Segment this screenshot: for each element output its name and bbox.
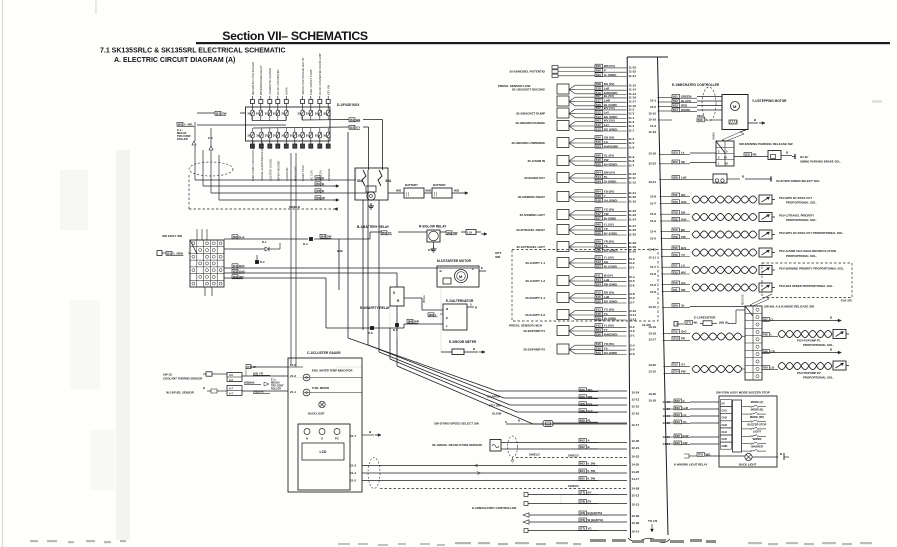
- svg-text:PSV-E/HI SPEED PROPORTIONAL SO: PSV-E/HI SPEED PROPORTIONAL SOL.: [779, 284, 834, 288]
- svg-text:(78): (78): [316, 189, 321, 193]
- svg-text:14-20: 14-20: [632, 470, 640, 474]
- svg-text:15-2: 15-2: [650, 105, 656, 109]
- svg-text:15-8: 15-8: [650, 195, 656, 199]
- svg-text:30-11/OPT 1-1: 30-11/OPT 1-1: [525, 261, 545, 265]
- svg-text:(63) YR: (63) YR: [253, 372, 264, 376]
- svg-text:B: B: [518, 419, 520, 423]
- svg-text:30-16/MODEL POTENTIO: 30-16/MODEL POTENTIO: [510, 70, 546, 74]
- svg-text:PSV-P2/PUMP P2: PSV-P2/PUMP P2: [797, 371, 821, 375]
- svg-text:C-1: C-1: [208, 136, 213, 140]
- svg-text:GLOW: GLOW: [492, 412, 501, 416]
- svg-text:SW-5/TWO-SPEED SELECT SW: SW-5/TWO-SPEED SELECT SW: [434, 422, 479, 426]
- svg-text:A-6: A-6: [229, 379, 234, 382]
- svg-text:MAIN LIGHT: MAIN LIGHT: [293, 166, 297, 181]
- svg-text:WASHER: WASHER: [751, 445, 763, 449]
- svg-text:15-15: 15-15: [648, 112, 656, 116]
- svg-text:(75): (75): [698, 453, 703, 457]
- svg-text:Section VII– SCHEMATICS: Section VII– SCHEMATICS: [222, 29, 368, 43]
- svg-text:(52): (52): [350, 118, 355, 122]
- svg-text:B: B: [588, 445, 590, 449]
- svg-text:30-4/BOOM LOWERING: 30-4/BOOM LOWERING: [511, 141, 545, 145]
- svg-text:W: W: [322, 196, 325, 200]
- svg-text:PSV-D/P1 BY-PASS CUT PROPORTIO: PSV-D/P1 BY-PASS CUT PROPORTIONAL SOL.: [779, 231, 844, 235]
- svg-text:13-15: 13-15: [648, 370, 656, 374]
- svg-text:30-23/PUMP P2: 30-23/PUMP P2: [523, 348, 545, 352]
- svg-text:30-3/BOOM RAISING: 30-3/BOOM RAISING: [515, 121, 545, 125]
- svg-text:BUZZER STOP: BUZZER STOP: [748, 422, 767, 426]
- svg-text:5B: 5B: [681, 160, 685, 164]
- svg-text:1- 2RL: 1- 2RL: [184, 123, 193, 127]
- svg-text:G+L: G+L: [239, 235, 245, 239]
- svg-text:15-22: 15-22: [648, 162, 656, 166]
- svg-text:WIPER/WASHER RELAY: WIPER/WASHER RELAY: [259, 65, 263, 95]
- svg-text:A-7: A-7: [229, 393, 234, 396]
- svg-text:| |: | |: [406, 192, 409, 197]
- svg-text:5Y: 5Y: [388, 231, 392, 235]
- svg-text:15-12: 15-12: [632, 494, 640, 498]
- svg-text:PROPORTIONAL SOL.: PROPORTIONAL SOL.: [786, 218, 817, 222]
- svg-text:ION: ION: [495, 255, 500, 259]
- svg-text:FUEL PUMP CAB ROOM LIGHTS: FUEL PUMP CAB ROOM LIGHTS: [251, 141, 255, 181]
- svg-text:A-6: A-6: [229, 374, 234, 377]
- svg-text:(63)GrB: (63)GrB: [253, 390, 264, 394]
- svg-text:14-25: 14-25: [632, 463, 640, 467]
- svg-text:(76): (76): [316, 196, 321, 200]
- svg-text:(77): (77): [580, 527, 585, 531]
- svg-text:S: S: [321, 437, 323, 441]
- svg-text:RELEASE: RELEASE: [742, 294, 745, 305]
- svg-text:10-20: 10-20: [648, 392, 656, 396]
- svg-text:EA1-370: EA1-370: [841, 299, 852, 303]
- svg-text:30-22/PUMP P1: 30-22/PUMP P1: [523, 329, 545, 333]
- svg-text:80A: 80A: [357, 179, 364, 183]
- svg-text:15-13: 15-13: [632, 503, 640, 507]
- svg-text:WY: WY: [239, 275, 244, 279]
- svg-text:13-15: 13-15: [648, 305, 656, 309]
- svg-text:GY: GY: [356, 126, 360, 130]
- svg-text:PW: PW: [681, 370, 686, 374]
- svg-text:SHIELD: SHIELD: [529, 453, 540, 457]
- svg-text:15-1: 15-1: [650, 99, 656, 103]
- svg-text:21-3: 21-3: [350, 464, 356, 468]
- svg-text:E-3/HOUR METER: E-3/HOUR METER: [449, 340, 477, 344]
- svg-text:SHIELD: SHIELD: [568, 484, 579, 488]
- svg-text:500: 500: [698, 118, 703, 122]
- svg-text:DC-DC CONVERTER ROOM LAMP: DC-DC CONVERTER ROOM LAMP: [318, 53, 322, 95]
- svg-text:15-14: 15-14: [632, 530, 640, 534]
- svg-text:(22): (22): [745, 153, 750, 157]
- svg-text:1-2A: 1-2A: [467, 232, 472, 235]
- svg-text:PB: PB: [753, 153, 757, 157]
- svg-text:15-18: 15-18: [648, 399, 656, 403]
- svg-text:30-9/SWING RIGHT: 30-9/SWING RIGHT: [518, 195, 545, 199]
- svg-text:Le: Le: [681, 151, 685, 155]
- svg-text:30-15/FUEL SENSOR: 30-15/FUEL SENSOR: [166, 391, 194, 395]
- svg-text:S: S: [393, 291, 395, 295]
- svg-text:80A: 80A: [386, 179, 393, 183]
- svg-text:L: L: [435, 313, 437, 317]
- svg-text:15-9: 15-9: [650, 219, 656, 223]
- svg-text:BY: BY: [588, 491, 592, 495]
- svg-text:ENG. WATER TEMP INDICATOR: ENG. WATER TEMP INDICATOR: [312, 369, 352, 373]
- svg-text:21-5: 21-5: [350, 479, 356, 483]
- svg-text:(63)BrB: (63)BrB: [244, 381, 254, 385]
- svg-text:13-17: 13-17: [648, 338, 656, 342]
- svg-text:BATTERY: BATTERY: [405, 183, 418, 187]
- svg-text:D-6: D-6: [368, 331, 373, 335]
- svg-text:11-19: 11-19: [629, 200, 637, 204]
- svg-text:A-7: A-7: [229, 388, 234, 391]
- svg-text:11-24: 11-24: [629, 218, 637, 222]
- svg-text:D-4: D-4: [428, 248, 433, 252]
- svg-text:PRESS. SENSOR HIGH: PRESS. SENSOR HIGH: [509, 324, 542, 328]
- svg-text:CH1: CH1: [722, 409, 728, 413]
- svg-text:(58): (58): [673, 176, 678, 180]
- svg-text:(56): (56): [447, 231, 452, 235]
- svg-text:(50): (50): [178, 123, 183, 127]
- svg-text:E-1/MECHATRO CONTROLLER: E-1/MECHATRO CONTROLLER: [672, 83, 720, 87]
- svg-text:K-6/WORK LIGHT RELAY: K-6/WORK LIGHT RELAY: [674, 463, 707, 467]
- svg-text:(76): (76): [580, 511, 585, 515]
- svg-text:RESERVE: RESERVE: [327, 168, 331, 181]
- svg-text:2b: 2b: [681, 304, 685, 308]
- svg-text:13-18: 13-18: [648, 332, 656, 336]
- svg-text:769: 769: [763, 366, 768, 370]
- svg-text:(76): (76): [580, 518, 585, 522]
- svg-text:7.1 SK135SRLC & SK135SRL ELECT: 7.1 SK135SRLC & SK135SRL ELECTRICAL SCHE…: [100, 48, 286, 55]
- svg-text:CIGARETTE LIGHTER: CIGARETTE LIGHTER: [268, 68, 272, 95]
- svg-text:TO 1/9: TO 1/9: [648, 519, 657, 523]
- svg-text:| |: | |: [434, 192, 437, 197]
- svg-text:60B: 60B: [396, 189, 401, 193]
- svg-text:15-6: 15-6: [650, 212, 656, 216]
- svg-text:(51): (51): [167, 252, 172, 256]
- svg-text:LeB: LeB: [681, 176, 686, 180]
- svg-text:D-1/FUSE BOX: D-1/FUSE BOX: [337, 103, 360, 107]
- svg-text:PSV-P1/PUMP P1: PSV-P1/PUMP P1: [797, 339, 821, 343]
- svg-text:D-2: D-2: [260, 260, 265, 264]
- svg-text:CH5: CH5: [722, 437, 728, 441]
- svg-text:(78): (78): [580, 500, 585, 504]
- svg-text:11-12: 11-12: [629, 181, 637, 185]
- svg-text:A. ELECTRIC CIRCUIT DIAGRAM (A: A. ELECTRIC CIRCUIT DIAGRAM (A): [114, 57, 235, 64]
- svg-text:(02): (02): [233, 270, 238, 274]
- svg-text:PROPORTIONAL SOL.: PROPORTIONAL SOL.: [803, 343, 834, 347]
- svg-text:L: L: [771, 333, 773, 337]
- svg-text:21-1: 21-1: [290, 390, 296, 394]
- svg-text:15-8: 15-8: [650, 290, 656, 294]
- svg-text:13-6: 13-6: [629, 284, 635, 288]
- svg-text:PROPORTIONAL SOL.: PROPORTIONAL SOL.: [786, 254, 817, 258]
- svg-text:13-18: 13-18: [648, 152, 656, 156]
- svg-text:11-6: 11-6: [629, 146, 635, 150]
- svg-text:(55): (55): [382, 231, 387, 235]
- svg-text:RADIO STOP: RADIO STOP: [301, 165, 305, 181]
- svg-text:21-2: 21-2: [290, 374, 296, 378]
- svg-text:(53): (53): [350, 126, 355, 130]
- svg-text:13-20: 13-20: [648, 363, 656, 367]
- svg-text:14-17: 14-17: [632, 477, 640, 481]
- svg-text:5V: 5V: [722, 402, 725, 406]
- svg-text:21-6: 21-6: [290, 363, 296, 367]
- svg-text:15-8: 15-8: [650, 272, 656, 276]
- svg-text:COOLANT THERMO SENSOR: COOLANT THERMO SENSOR: [163, 377, 202, 381]
- svg-text:PROPORTIONAL SOL.: PROPORTIONAL SOL.: [786, 201, 817, 205]
- svg-text:PSV-C/TRAVEL PRIORITY: PSV-C/TRAVEL PRIORITY: [779, 214, 814, 218]
- svg-text:KEY SW: KEY SW: [327, 84, 331, 95]
- svg-text:R-4/SAFETY RELAY: R-4/SAFETY RELAY: [360, 306, 391, 310]
- svg-text:E-1/MECHATRO CONTROLLER: E-1/MECHATRO CONTROLLER: [472, 506, 517, 510]
- svg-text:PC: PC: [335, 437, 339, 441]
- svg-text:(80)GL: (80)GL: [422, 294, 426, 303]
- svg-text:CH3: CH3: [722, 423, 728, 427]
- svg-text:15-29: 15-29: [632, 521, 640, 525]
- svg-text:15-7: 15-7: [650, 265, 656, 269]
- svg-text:30-5/SWING LEFT: 30-5/SWING LEFT: [520, 213, 546, 217]
- svg-text:(754: (754: [673, 370, 679, 374]
- svg-text:11-25: 11-25: [629, 233, 637, 237]
- svg-text:(86): (86): [429, 313, 434, 317]
- svg-text:E-11/RESISTOR: E-11/RESISTOR: [694, 316, 716, 320]
- svg-text:WR: WR: [414, 320, 420, 324]
- svg-text:WL: WL: [694, 321, 699, 325]
- svg-text:(22): (22): [673, 151, 678, 155]
- svg-text:602: 602: [580, 438, 585, 442]
- svg-text:SHIELD: SHIELD: [568, 454, 579, 458]
- svg-text:MECHATRO CONTROLLER: MECHATRO CONTROLLER: [251, 62, 255, 95]
- svg-text:15-24: 15-24: [632, 391, 640, 395]
- svg-text:D-1: D-1: [262, 240, 267, 244]
- svg-text:B (EARTH): B (EARTH): [588, 511, 603, 515]
- svg-text:D-3: D-3: [303, 242, 308, 246]
- svg-text:Y-1/STEPPING MOTOR: Y-1/STEPPING MOTOR: [752, 99, 787, 103]
- svg-text:B0B: B0B: [337, 249, 343, 253]
- svg-text:15-4: 15-4: [650, 230, 656, 234]
- svg-text:(60) 2b: (60) 2b: [719, 321, 729, 325]
- svg-text:608: 608: [580, 418, 585, 422]
- svg-text:753: 753: [673, 363, 678, 367]
- svg-text:L: L: [446, 324, 448, 328]
- svg-text:FUEL METER: FUEL METER: [312, 386, 329, 390]
- svg-text:PL: PL: [588, 418, 592, 422]
- svg-text:SWING CONTROLLER AUX SP: SWING CONTROLLER AUX SP: [301, 57, 305, 95]
- svg-text:TRAVEL ALARM BEAM FLASHER: TRAVEL ALARM BEAM FLASHER: [260, 141, 264, 181]
- svg-text:30-13/ENG. REVOLUTION SENSOR: 30-13/ENG. REVOLUTION SENSOR: [432, 443, 483, 447]
- svg-text:A/C CON: A/C CON: [309, 170, 313, 181]
- svg-text:12-17: 12-17: [632, 423, 640, 427]
- svg-text:(09): (09): [233, 275, 238, 279]
- svg-text:768: 768: [763, 333, 768, 337]
- svg-text:(78): (78): [316, 176, 321, 180]
- svg-text:(752: (752: [673, 337, 679, 341]
- svg-text:60B: 60B: [454, 189, 459, 193]
- svg-text:767: 767: [763, 318, 768, 322]
- svg-text:CH4: CH4: [722, 430, 728, 434]
- svg-text:13-1: 13-1: [629, 266, 635, 270]
- svg-text:11-30: 11-30: [629, 250, 637, 254]
- svg-text:10-29: 10-29: [632, 514, 640, 518]
- svg-text:13-21: 13-21: [648, 180, 656, 184]
- svg-text:CH2: CH2: [722, 416, 728, 420]
- svg-text:(77): (77): [580, 491, 585, 495]
- svg-text:2W: 2W: [222, 112, 227, 116]
- svg-text:H: H: [306, 437, 308, 441]
- svg-text:(51): (51): [216, 112, 221, 116]
- svg-text:15-11: 15-11: [648, 256, 656, 260]
- svg-text:B: B: [203, 386, 205, 390]
- svg-text:KEY ON: KEY ON: [489, 404, 500, 408]
- svg-text:PROPORTIONAL SOL.: PROPORTIONAL SOL.: [803, 376, 834, 380]
- svg-text:R-3/GLOW RELAY: R-3/GLOW RELAY: [419, 225, 447, 229]
- svg-text:(86): (86): [408, 320, 413, 324]
- svg-text:WIPER MASHER: WIPER MASHER: [276, 161, 280, 181]
- svg-text:15-7: 15-7: [650, 202, 656, 206]
- svg-text:(54): (54): [321, 235, 326, 239]
- svg-text:12-16: 12-16: [632, 412, 640, 416]
- svg-text:10-23: 10-23: [632, 455, 640, 459]
- svg-text:15-16: 15-16: [648, 118, 656, 122]
- svg-text:11-34: 11-34: [648, 130, 656, 134]
- svg-text:ROLLER: ROLLER: [271, 388, 281, 391]
- svg-text:SW-9/8, A & B MODE RELEASE SW: SW-9/8, A & B MODE RELEASE SW: [764, 305, 814, 309]
- svg-text:21-4: 21-4: [350, 471, 356, 475]
- svg-text:15-3: 15-3: [650, 124, 656, 128]
- svg-text:W (EARTH): W (EARTH): [588, 518, 603, 522]
- svg-text:11-1: 11-1: [629, 129, 635, 133]
- svg-text:DC-DC CONVERTER: DC-DC CONVERTER: [276, 70, 280, 95]
- svg-text:(50): (50): [673, 304, 678, 308]
- svg-text:E: E: [481, 266, 483, 270]
- svg-text:CLUSTER GAUGE: CLUSTER GAUGE: [268, 159, 272, 181]
- svg-text:(77): (77): [686, 321, 691, 325]
- svg-text:30-21/OPT 2-2: 30-21/OPT 2-2: [525, 313, 545, 317]
- svg-text:LIGHT: LIGHT: [753, 430, 761, 434]
- svg-text:CHARGE: CHARGE: [487, 395, 500, 399]
- svg-text:WIPER: WIPER: [753, 437, 762, 441]
- svg-text:5W: 5W: [327, 235, 332, 239]
- svg-text:SW-7/SW ASSY MODE BUZZER ST: SW-7/SW ASSY MODE BUZZER STOP: [716, 391, 770, 395]
- svg-text:(50): (50): [316, 182, 321, 186]
- svg-text:12-13: 12-13: [632, 398, 640, 402]
- svg-text:MODE (B): MODE (B): [751, 408, 764, 412]
- svg-text:A1-370: A1-370: [642, 323, 652, 327]
- svg-text:SWING PARKING BRAKE SOL.: SWING PARKING BRAKE SOL.: [800, 160, 841, 164]
- svg-text:30-6/TRAVEL RIGHT: 30-6/TRAVEL RIGHT: [516, 228, 545, 232]
- svg-text:11-31: 11-31: [629, 74, 637, 78]
- svg-text:SW-6/SWING PARKING RELEASE SW: SW-6/SWING PARKING RELEASE SW: [739, 142, 793, 146]
- svg-text:PSV-A/ARM VALUABLE RECIRCULATI: PSV-A/ARM VALUABLE RECIRCULATION: [779, 249, 836, 253]
- svg-text:2H-11/: 2H-11/: [800, 155, 808, 159]
- svg-text:PSV-B/P2 BY-PASS CUT: PSV-B/P2 BY-PASS CUT: [779, 196, 812, 200]
- svg-text:13-7: 13-7: [629, 301, 635, 305]
- svg-text:30-8/ARM OUT: 30-8/ARM OUT: [524, 176, 545, 180]
- svg-text:OrG: OrG: [681, 330, 687, 334]
- svg-text:SOLENOID: SOLENOID: [285, 167, 289, 181]
- svg-text:21-7: 21-7: [350, 434, 356, 438]
- svg-text:SW-1/KEY SW: SW-1/KEY SW: [162, 234, 182, 238]
- svg-text:15-5: 15-5: [650, 237, 656, 241]
- svg-text:12-15: 12-15: [632, 405, 640, 409]
- svg-text:GrB: GrB: [239, 270, 246, 274]
- svg-text:HORN: HORN: [285, 87, 289, 95]
- svg-text:12-21: 12-21: [632, 446, 640, 450]
- svg-text:11-7: 11-7: [629, 164, 635, 168]
- svg-text:E: E: [446, 316, 448, 320]
- svg-text:P: P: [706, 118, 708, 122]
- svg-text:BrR: BrR: [239, 264, 245, 268]
- svg-text:PSV-B/SWING PRIORITY PROPORTIO: PSV-B/SWING PRIORITY PROPORTIONAL SOL.: [779, 267, 844, 271]
- svg-text:B-1/BATTERY RELAY: B-1/BATTERY RELAY: [357, 225, 390, 229]
- svg-text:FUEL SUPPLY PUMP: FUEL SUPPLY PUMP: [309, 69, 313, 95]
- svg-text:GY: GY: [681, 363, 685, 367]
- svg-text:14-28: 14-28: [632, 487, 640, 491]
- svg-text:602: 602: [580, 445, 585, 449]
- svg-text:MODE (SP): MODE (SP): [750, 415, 764, 419]
- svg-text:S: S: [505, 420, 507, 424]
- svg-text:30-7/ARM IN: 30-7/ARM IN: [527, 159, 545, 163]
- svg-text:ROLLER: ROLLER: [177, 137, 188, 141]
- svg-text:1. 2BW: 1. 2BW: [173, 252, 183, 256]
- svg-text:12-20: 12-20: [632, 439, 640, 443]
- svg-text:15-6: 15-6: [650, 283, 656, 287]
- svg-text:RY: RY: [588, 500, 592, 504]
- svg-text:30-1/BUCKET DIGGING: 30-1/BUCKET DIGGING: [512, 88, 546, 92]
- svg-text:SV-3/TWO-SPEED SELECT SOL.: SV-3/TWO-SPEED SELECT SOL.: [776, 179, 821, 183]
- svg-text:30-2/BUCKET DUMP: 30-2/BUCKET DUMP: [516, 112, 545, 116]
- svg-text:SWING: SWING: [714, 132, 716, 140]
- svg-text:MODE (A): MODE (A): [751, 400, 764, 404]
- svg-text:(58): (58): [233, 235, 238, 239]
- svg-text:752: 752: [673, 330, 678, 334]
- svg-text:500: 500: [673, 160, 678, 164]
- svg-text:(01): (01): [233, 264, 238, 268]
- svg-text:766: 766: [763, 350, 768, 354]
- svg-text:5W: 5W: [453, 231, 458, 235]
- svg-text:C-1/CLUSTER GAUGE: C-1/CLUSTER GAUGE: [307, 351, 341, 355]
- svg-text:BACK LIGHT: BACK LIGHT: [739, 463, 757, 467]
- svg-text:LCD: LCD: [320, 450, 328, 454]
- svg-text:30-11/OPT 1-2: 30-11/OPT 1-2: [525, 279, 545, 283]
- svg-text:30-10/TRAVEL LEFT: 30-10/TRAVEL LEFT: [516, 245, 545, 249]
- svg-text:LB: LB: [771, 366, 775, 370]
- svg-text:M-1/STARTER MOTOR: M-1/STARTER MOTOR: [437, 259, 472, 263]
- svg-text:30-20/OPT 2-1: 30-20/OPT 2-1: [525, 296, 545, 300]
- svg-text:BACK LIGHT: BACK LIGHT: [308, 412, 325, 416]
- svg-text:GND: GND: [722, 444, 728, 448]
- svg-text:B0B: B0B: [426, 189, 432, 193]
- svg-text:BATTERY: BATTERY: [433, 183, 446, 187]
